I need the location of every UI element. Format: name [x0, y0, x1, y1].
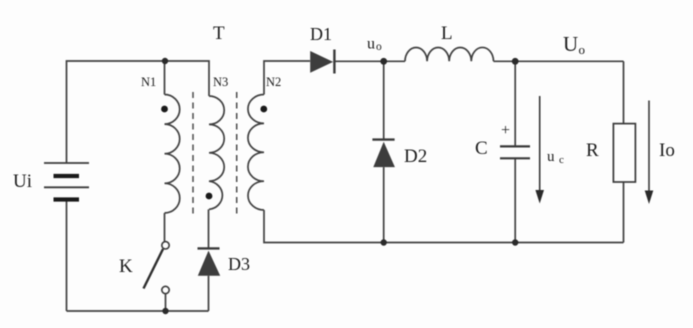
node junction dot D2 bottom	[381, 239, 387, 245]
svg-text:C: C	[475, 138, 488, 159]
wire battery bottom to bottom rail	[66, 200, 68, 312]
node junction dot L-C	[512, 58, 519, 65]
diode D1 cathode bar	[333, 50, 335, 74]
switch K blade	[144, 249, 164, 289]
svg-text:o: o	[579, 42, 586, 57]
node uo junction dot	[380, 58, 387, 65]
wire right column upper to R	[623, 61, 625, 123]
svg-text:L: L	[441, 23, 453, 44]
wire D2 branch upper	[383, 61, 385, 139]
transformer core dashed line left	[192, 92, 194, 215]
svg-text:u: u	[367, 36, 375, 53]
battery Ui	[44, 163, 89, 200]
diode D3 cathode bar	[198, 247, 220, 249]
svg-text:N3: N3	[213, 75, 228, 89]
node junction dot C bottom	[512, 239, 518, 245]
wire node uo to L	[384, 60, 405, 62]
wire top-left rail from battery to N3 corner	[67, 61, 210, 163]
wire C branch lower	[514, 159, 516, 243]
svg-text:o: o	[376, 41, 382, 53]
wire N1 bottom lead to switch	[164, 213, 166, 242]
wire switch bottom lead	[165, 294, 167, 311]
wire bottom-left rail	[67, 310, 209, 312]
diode D2 triangle	[373, 142, 395, 167]
transformer T winding N3	[209, 96, 224, 209]
arrow uc	[539, 96, 541, 192]
wire L to right corner	[494, 60, 624, 62]
wire N3 bottom lead to D3	[208, 209, 210, 248]
svg-text:c: c	[559, 154, 564, 166]
svg-text:U: U	[563, 32, 578, 56]
svg-text:Io: Io	[659, 140, 675, 161]
wire D1 cathode to node uo	[335, 60, 383, 62]
transformer T winding N2	[248, 95, 264, 211]
svg-text:D3: D3	[228, 254, 250, 274]
resistor R box	[613, 124, 635, 182]
svg-text:T: T	[213, 23, 225, 44]
svg-text:Ui: Ui	[13, 171, 32, 192]
svg-text:+: +	[501, 122, 510, 139]
wire N2 bottom lead and bottom-middle rail	[264, 210, 624, 243]
diode D2 cathode bar	[372, 138, 394, 140]
arrow Io	[648, 101, 650, 193]
svg-text:D2: D2	[404, 146, 427, 167]
svg-text:D1: D1	[310, 24, 332, 44]
switch K top contact circle	[162, 242, 169, 249]
wire N2 top lead and rail to D1	[264, 61, 310, 95]
wire D3 anode to bottom rail	[208, 276, 210, 311]
diode D3 triangle	[198, 251, 220, 276]
svg-text:N2: N2	[266, 75, 281, 89]
wire C branch upper	[514, 61, 516, 146]
polarity dot N3	[206, 193, 213, 200]
wire R bottom to bottom rail	[623, 182, 625, 243]
transformer core dashed line right	[236, 92, 238, 215]
svg-text:u: u	[547, 149, 555, 165]
inductor L	[405, 47, 494, 61]
diode D1 triangle	[310, 51, 333, 73]
capacitor C plates	[500, 145, 530, 147]
node junction dot top rail / N1	[162, 58, 168, 64]
wire D2 branch lower	[383, 167, 385, 242]
switch K bottom contact circle	[162, 286, 169, 293]
node junction dot bottom rail / switch	[162, 308, 168, 314]
polarity dot N1	[161, 106, 168, 113]
svg-text:N1: N1	[141, 75, 156, 89]
wire N1 top lead	[164, 61, 166, 95]
svg-text:K: K	[119, 256, 133, 277]
polarity dot N2	[260, 106, 267, 113]
svg-text:R: R	[586, 140, 599, 161]
transformer T winding N1	[165, 95, 180, 214]
